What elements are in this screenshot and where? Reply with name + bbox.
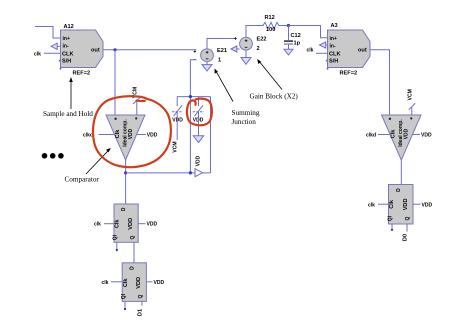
- svg-text:D: D: [129, 266, 135, 270]
- svg-text:REF=2: REF=2: [340, 70, 358, 76]
- svg-text:VCM: VCM: [407, 89, 413, 100]
- VCM net stub below left supply: [176, 112, 178, 140]
- flip-flop FF1: [114, 204, 138, 242]
- U1 output wire down to FF1: [125, 160, 127, 204]
- svg-text:1p: 1p: [294, 40, 301, 46]
- comparator U2 (ideal comp): [382, 115, 422, 160]
- svg-text:Clk: Clk: [115, 219, 121, 229]
- VDD label right of U2: [412, 134, 420, 136]
- svg-text:VDD: VDD: [136, 277, 142, 289]
- VDD rail bracket: [177, 96, 210, 98]
- svg-text:in-: in-: [330, 43, 336, 49]
- A3 S/H pin tick: [326, 60, 328, 62]
- svg-text:Q: Q: [405, 217, 411, 221]
- svg-text:R12: R12: [265, 15, 275, 21]
- svg-text:REF=2: REF=2: [73, 70, 91, 76]
- svg-text:VDD: VDD: [403, 198, 409, 210]
- output node U1: [124, 171, 127, 174]
- junction node R12/C12: [287, 24, 290, 27]
- svg-text:clk: clk: [102, 280, 109, 286]
- svg-text:A3: A3: [331, 23, 338, 29]
- svg-text:VDD: VDD: [403, 128, 409, 139]
- svg-text:A12: A12: [64, 24, 74, 30]
- FF2 Q stub / D1 net: [141, 301, 143, 305]
- svg-text:CLK: CLK: [62, 52, 74, 58]
- svg-text:QI: QI: [387, 215, 393, 221]
- svg-text:Q: Q: [138, 295, 144, 299]
- svg-text:in+: in+: [63, 36, 70, 42]
- svg-text:clkd: clkd: [366, 133, 376, 139]
- svg-text:Q: Q: [130, 236, 136, 240]
- input arrow at E22 minus: [231, 46, 237, 52]
- S/H pin tick: [59, 60, 61, 62]
- svg-text:Clk: Clk: [390, 129, 396, 139]
- summing junction E21: [201, 49, 214, 62]
- svg-text:Gain Block (X2): Gain Block (X2): [250, 92, 299, 100]
- FF1 QI stub: [116, 242, 118, 249]
- svg-text:D0: D0: [403, 234, 409, 241]
- ground arrow below right supply: [198, 112, 200, 136]
- svg-text:VDD: VDD: [147, 133, 158, 139]
- svg-text:QI: QI: [113, 234, 119, 240]
- input arrow at A3 in-: [320, 42, 326, 48]
- summing junction E22: [240, 37, 253, 50]
- comparator U1 (ideal comp): [106, 115, 145, 160]
- svg-text:clk: clk: [34, 51, 41, 57]
- output wire to buffer: [126, 172, 195, 174]
- svg-text:VDD: VDD: [154, 280, 165, 286]
- svg-text:CLK: CLK: [329, 52, 341, 58]
- resistor R12: [253, 22, 289, 28]
- svg-text:S/H: S/H: [329, 59, 338, 65]
- red pen tail: [137, 99, 145, 102]
- VDD label at FF2: [146, 281, 152, 283]
- svg-text:clk: clk: [307, 48, 314, 54]
- svg-text:VDD: VDD: [128, 218, 134, 230]
- svg-text:100: 100: [266, 27, 275, 33]
- svg-text:VDD: VDD: [147, 222, 158, 228]
- svg-text:Junction: Junction: [232, 118, 257, 126]
- ground arrow below C12: [284, 49, 293, 55]
- wire A12 out to E21 control: [103, 49, 197, 51]
- svg-text:Summing: Summing: [232, 109, 260, 117]
- svg-text:Clk: Clk: [389, 199, 395, 209]
- svg-text:D: D: [121, 207, 127, 211]
- svg-text:Comparator: Comparator: [65, 176, 100, 184]
- A12 ref pin dot: [60, 68, 62, 70]
- sample and hold A12: [61, 30, 104, 68]
- VDD label at FF3: [413, 203, 421, 205]
- VDD label at FF1: [138, 223, 145, 225]
- svg-text:VDD: VDD: [128, 128, 134, 139]
- red annotation circle around VDD source: [187, 99, 212, 126]
- wire A3 out down to comparator U2: [370, 50, 390, 115]
- svg-text:clk: clk: [368, 202, 375, 208]
- ellipsis dots: [42, 153, 48, 159]
- svg-text:D: D: [396, 188, 402, 192]
- red annotation circle around comparator U1: [93, 96, 171, 167]
- FF3 Q stub / D0 net: [406, 224, 408, 232]
- wire A12 out down to comparator U1: [114, 50, 116, 115]
- ground arrow below E22: [245, 50, 247, 57]
- capacitor C12: [288, 26, 290, 41]
- wire into A12 in+: [35, 27, 61, 39]
- svg-text:Clk: Clk: [115, 129, 121, 139]
- flip-flop FF3: [389, 185, 414, 225]
- svg-text:out: out: [358, 47, 367, 53]
- feedback wire right: [210, 97, 212, 173]
- wire clk to A3 CLK: [316, 52, 328, 54]
- sample and hold A3: [328, 30, 371, 68]
- svg-text:VDD: VDD: [172, 118, 183, 124]
- FF2 QI stub: [124, 301, 126, 307]
- svg-text:1: 1: [218, 58, 221, 64]
- FF1 Q wire to FF2 D: [133, 242, 135, 262]
- svg-text:in+: in+: [330, 36, 337, 42]
- svg-text:QI: QI: [121, 293, 127, 299]
- svg-text:S/H: S/H: [62, 59, 71, 65]
- input arrow at A12 in-: [51, 43, 57, 49]
- svg-text:Clk: Clk: [123, 278, 129, 288]
- svg-text:VDD: VDD: [195, 155, 201, 166]
- junction node on A12 out wire: [113, 48, 116, 51]
- svg-text:out: out: [91, 47, 100, 53]
- buffer (VDD net driver): [195, 169, 203, 177]
- wire E21 minus control down: [190, 60, 196, 173]
- svg-text:VDD: VDD: [421, 133, 432, 139]
- wire E21 out to E22 control: [207, 39, 236, 50]
- ground arrow below E21: [206, 62, 208, 65]
- VDD supply symbol left: [172, 111, 183, 113]
- svg-text:clkd: clkd: [83, 133, 93, 139]
- VDD supply symbol right: [193, 111, 204, 113]
- wire clk to A12 CLK: [44, 52, 61, 54]
- svg-text:E22: E22: [257, 37, 267, 43]
- svg-text:in-: in-: [63, 43, 69, 49]
- svg-text:VCM: VCM: [172, 141, 178, 152]
- U2 output wire down to FF3: [400, 160, 402, 185]
- svg-text:VDD: VDD: [422, 202, 433, 208]
- svg-text:C12: C12: [291, 33, 301, 39]
- junction node on output wire: [189, 171, 192, 174]
- VDD label right of U1: [137, 134, 146, 136]
- svg-text:E21: E21: [217, 48, 227, 54]
- svg-text:D1: D1: [138, 309, 144, 316]
- A3 ref pin dot: [327, 68, 329, 70]
- svg-text:2: 2: [257, 46, 260, 52]
- svg-text:Sample and Hold: Sample and Hold: [43, 110, 93, 118]
- FF3 QI stub: [391, 224, 393, 229]
- wire E22 out up to R12: [246, 26, 253, 38]
- wire R12 to A3 in+: [289, 26, 328, 38]
- flip-flop FF2: [122, 263, 146, 302]
- svg-text:clk: clk: [94, 222, 101, 228]
